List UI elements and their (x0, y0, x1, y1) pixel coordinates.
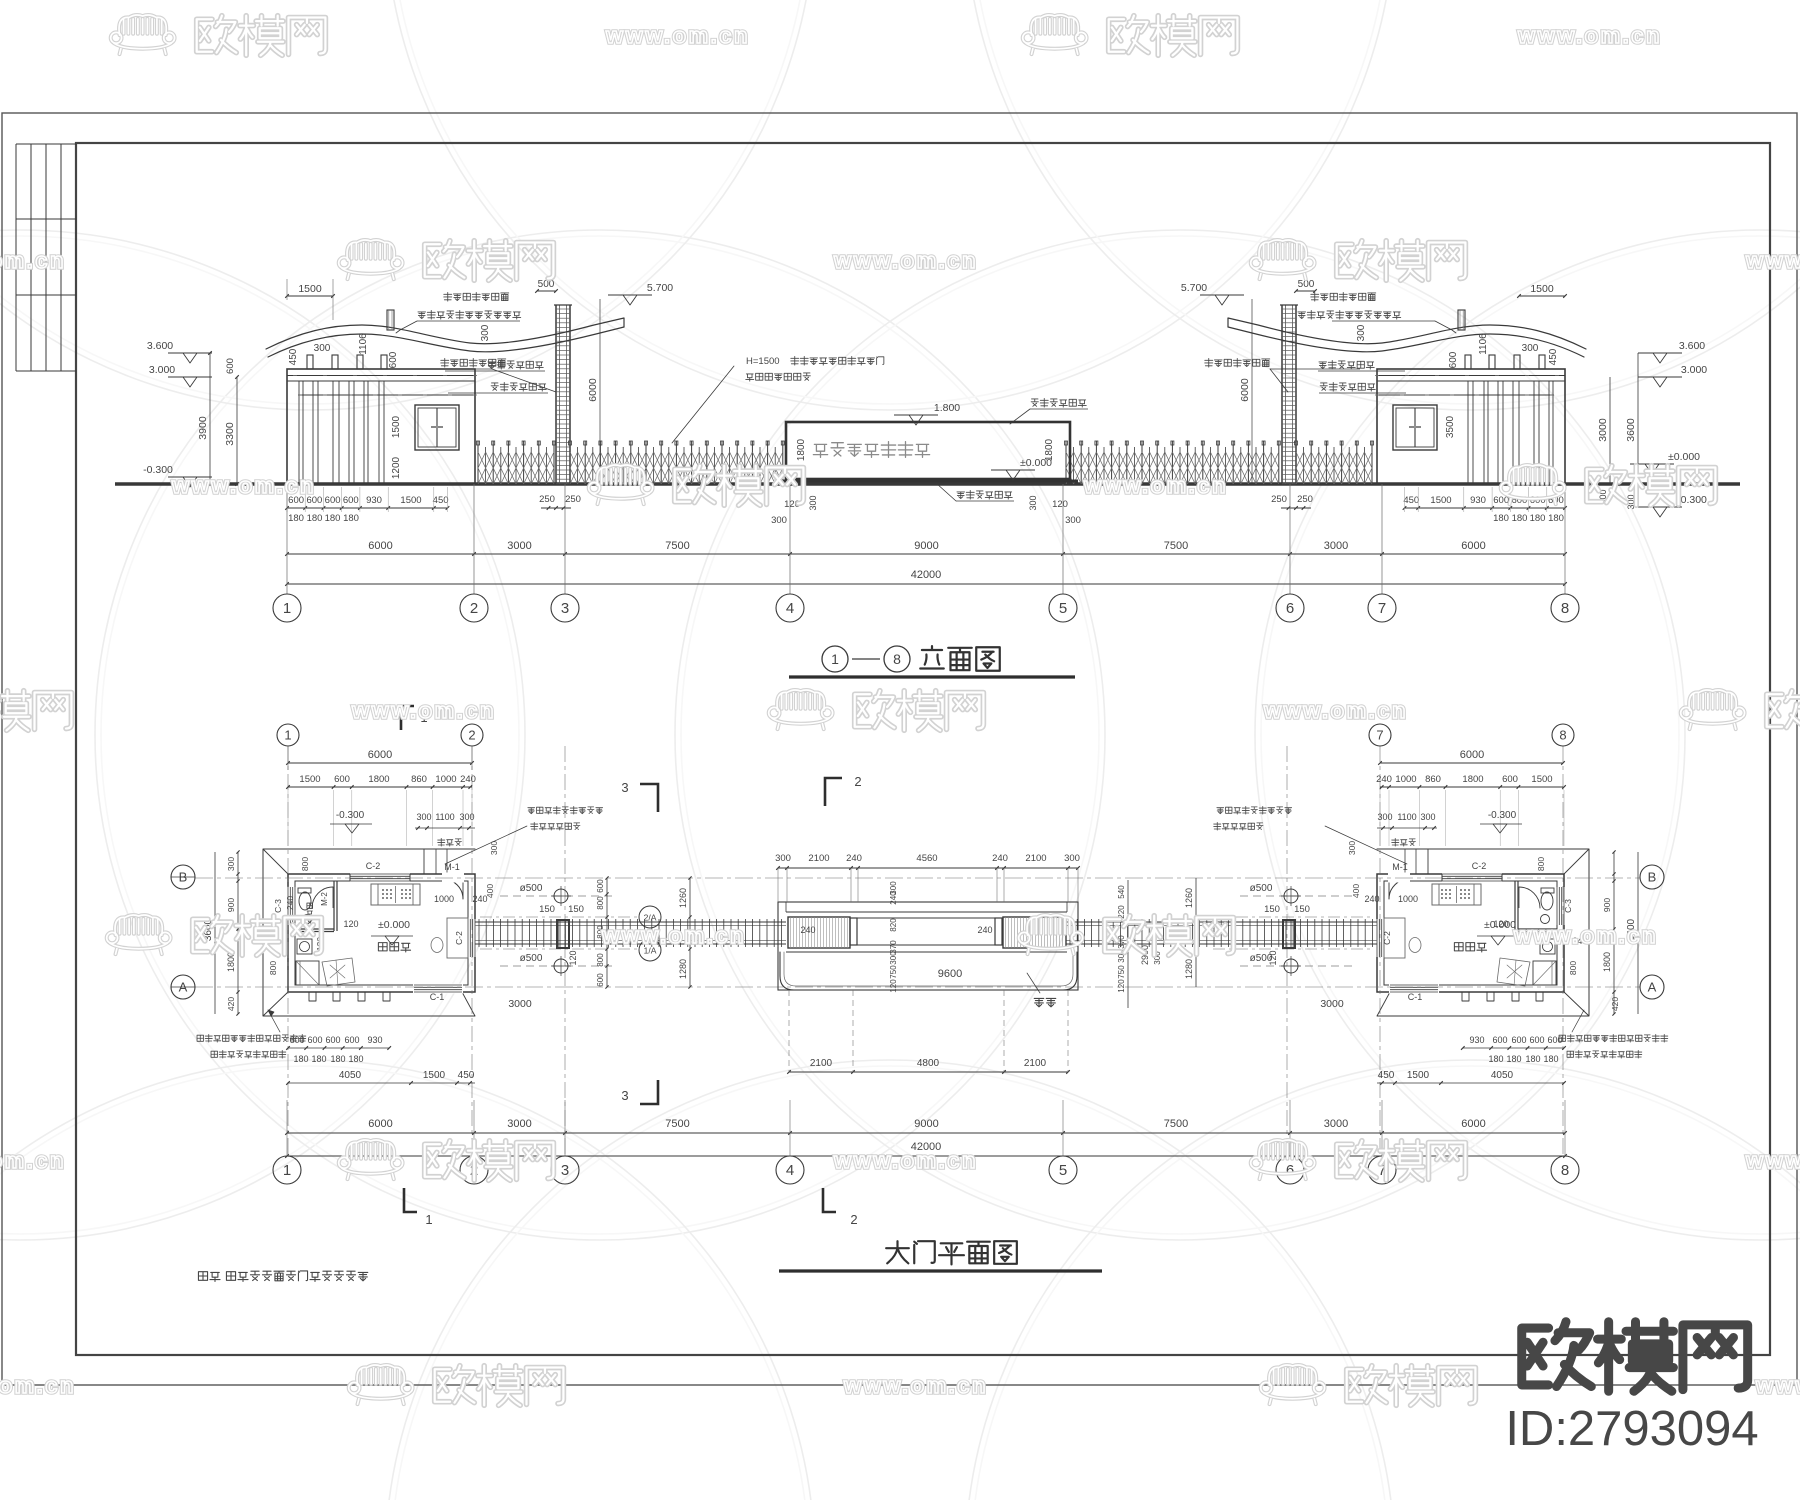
svg-text:8: 8 (1561, 1162, 1569, 1179)
elevation title (822, 646, 848, 672)
svg-text:120: 120 (568, 950, 578, 965)
elevation dim chain small (287, 507, 448, 509)
plan dim witness lines (287, 790, 289, 846)
svg-text:600: 600 (334, 774, 350, 785)
svg-text:600: 600 (596, 973, 605, 987)
svg-text:1500: 1500 (299, 774, 320, 785)
central vertical dims (899, 880, 901, 1010)
svg-text:4050: 4050 (339, 1070, 362, 1081)
svg-text:600: 600 (307, 1035, 322, 1045)
svg-text:C-1: C-1 (1408, 992, 1423, 1002)
gatehouse plan left (263, 849, 477, 1016)
lane vertical dims (606, 878, 608, 987)
plan axis bubbles bottom (286, 1100, 288, 1156)
svg-text:300: 300 (226, 857, 236, 871)
1.800 level marker (894, 414, 938, 416)
svg-text:120: 120 (889, 979, 898, 993)
svg-text:3000: 3000 (1597, 418, 1609, 442)
gate anchor circles (554, 889, 568, 903)
elevation top dims (287, 295, 333, 297)
svg-text:www.om.cn: www.om.cn (843, 1373, 988, 1398)
svg-text:www.om.cn: www.om.cn (1263, 698, 1408, 723)
svg-text:600: 600 (1529, 1035, 1544, 1045)
elevation level markers right (1638, 352, 1682, 354)
svg-text:400: 400 (485, 884, 495, 898)
svg-text:-0.300: -0.300 (336, 810, 365, 821)
svg-text:www.om.cn: www.om.cn (1755, 1373, 1800, 1398)
central top dims (778, 867, 1078, 869)
svg-text:2100: 2100 (1025, 853, 1046, 864)
svg-text:600: 600 (1502, 774, 1518, 785)
svg-text:240: 240 (846, 853, 862, 864)
plan axis bubbles top (277, 724, 299, 746)
svg-text:180: 180 (348, 1054, 363, 1064)
svg-text:240: 240 (977, 925, 992, 935)
svg-text:6000: 6000 (368, 1118, 392, 1130)
svg-text:B: B (1648, 870, 1657, 885)
svg-text:3000: 3000 (1324, 1118, 1348, 1130)
svg-text:7: 7 (1376, 728, 1383, 743)
room labels (378, 943, 387, 951)
svg-text:1280: 1280 (678, 959, 688, 979)
svg-text:150: 150 (1264, 904, 1280, 915)
svg-text:300: 300 (459, 812, 474, 822)
watermark layer (111, 15, 175, 54)
plan bottom small chains (288, 1047, 389, 1049)
svg-text:3: 3 (621, 1088, 628, 1103)
svg-text:300: 300 (489, 841, 499, 855)
svg-text:3: 3 (561, 600, 569, 617)
elevation axis bubbles (286, 484, 288, 594)
svg-text:3: 3 (621, 780, 628, 795)
svg-text:www.om.cn: www.om.cn (0, 248, 66, 273)
svg-text:300: 300 (1356, 324, 1367, 341)
central gate structure plan (778, 902, 1078, 990)
svg-text:180: 180 (1512, 513, 1528, 524)
svg-text:800: 800 (268, 961, 278, 975)
section markers (401, 706, 842, 1212)
svg-text:300: 300 (1522, 343, 1539, 354)
svg-text:240: 240 (1376, 774, 1392, 785)
elevation left height dims (209, 353, 211, 484)
svg-text:150: 150 (539, 904, 555, 915)
svg-text:7500: 7500 (665, 540, 689, 552)
gatehouse elevation left (266, 305, 624, 484)
svg-text:180: 180 (1506, 1054, 1521, 1064)
svg-text:250: 250 (1271, 494, 1287, 505)
svg-text:1: 1 (831, 651, 839, 667)
svg-text:250: 250 (565, 494, 581, 505)
plan left vertical dims (237, 852, 239, 1014)
svg-text:www.om.cn: www.om.cn (0, 1373, 76, 1398)
svg-text:6000: 6000 (1461, 540, 1485, 552)
plan right vertical dims (1613, 852, 1615, 1014)
svg-text:1000: 1000 (434, 894, 454, 904)
svg-text:600: 600 (325, 1035, 340, 1045)
svg-text:1200: 1200 (391, 456, 402, 479)
svg-text:930: 930 (367, 1035, 382, 1045)
svg-text:3900: 3900 (197, 416, 209, 440)
elevation chain witness lines (286, 487, 288, 512)
svg-text:540: 540 (1117, 885, 1126, 899)
svg-text:2100: 2100 (1024, 1058, 1047, 1069)
svg-text:4050: 4050 (1491, 1070, 1514, 1081)
svg-text:5.700: 5.700 (647, 282, 673, 294)
svg-text:C-3: C-3 (273, 899, 283, 913)
svg-text:860: 860 (1425, 774, 1441, 785)
svg-text:6000: 6000 (1461, 1118, 1485, 1130)
svg-text:300: 300 (1420, 812, 1435, 822)
svg-text:450: 450 (1403, 495, 1419, 506)
svg-text:www.om.cn: www.om.cn (1745, 248, 1800, 273)
central bottom dims (789, 1071, 1068, 1073)
svg-text:3.600: 3.600 (1679, 340, 1705, 352)
svg-text:1: 1 (284, 728, 291, 743)
svg-text:±0.000: ±0.000 (1668, 451, 1700, 463)
elevation annotations (444, 292, 452, 301)
svg-text:120: 120 (1268, 950, 1278, 965)
svg-text:8: 8 (893, 651, 901, 667)
svg-text:800: 800 (1536, 857, 1546, 871)
svg-text:±0.000: ±0.000 (378, 919, 410, 931)
svg-text:3000: 3000 (507, 1118, 531, 1130)
svg-text:1500: 1500 (298, 283, 322, 295)
svg-text:1: 1 (283, 600, 291, 617)
svg-text:180: 180 (1543, 1054, 1558, 1064)
svg-text:42000: 42000 (911, 569, 942, 581)
svg-text:4560: 4560 (916, 853, 937, 864)
svg-text:250: 250 (1297, 494, 1313, 505)
svg-text:1280: 1280 (1184, 959, 1194, 979)
svg-text:930: 930 (1470, 495, 1486, 506)
svg-text:1500: 1500 (1530, 283, 1554, 295)
inner drawing frame (76, 143, 1770, 1355)
svg-text:1800: 1800 (1602, 952, 1612, 972)
svg-text:180: 180 (311, 1054, 326, 1064)
svg-text:120: 120 (1117, 979, 1126, 993)
site logo (1522, 1322, 1592, 1387)
svg-text:1106: 1106 (358, 333, 369, 355)
svg-text:2100: 2100 (810, 1058, 833, 1069)
plan annotations (197, 1035, 203, 1041)
svg-text:1500: 1500 (1531, 774, 1552, 785)
svg-text:3600: 3600 (1625, 418, 1637, 442)
svg-text:www.om.cn: www.om.cn (1745, 1148, 1800, 1173)
svg-text:M-1: M-1 (444, 862, 460, 872)
elevation right height dims (1609, 377, 1611, 484)
plan axis dashed verticals (287, 746, 289, 1155)
svg-text:9000: 9000 (914, 1118, 938, 1130)
svg-text:3.600: 3.600 (147, 340, 173, 352)
svg-text:4: 4 (786, 1162, 794, 1179)
svg-text:150: 150 (1294, 904, 1310, 915)
svg-text:A: A (1648, 980, 1657, 995)
svg-text:600: 600 (325, 495, 341, 506)
svg-text:9600: 9600 (938, 968, 962, 980)
svg-text:600: 600 (388, 351, 399, 368)
svg-text:ø500: ø500 (1250, 883, 1273, 894)
svg-text:www.om.cn: www.om.cn (833, 1148, 978, 1173)
svg-text:180: 180 (293, 1054, 308, 1064)
svg-text:150: 150 (568, 904, 584, 915)
svg-text:www.om.cn: www.om.cn (351, 698, 496, 723)
svg-text:930: 930 (366, 495, 382, 506)
svg-text:M-2: M-2 (320, 892, 329, 906)
svg-text:300: 300 (1377, 812, 1392, 822)
svg-text:www.om.cn: www.om.cn (1513, 923, 1658, 948)
svg-text:450: 450 (1378, 1070, 1395, 1081)
svg-text:9000: 9000 (914, 540, 938, 552)
svg-text:600: 600 (343, 495, 359, 506)
svg-text:www.om.cn: www.om.cn (601, 923, 746, 948)
note text (198, 1272, 207, 1281)
svg-text:1800: 1800 (1462, 774, 1483, 785)
svg-text:1: 1 (425, 1212, 432, 1227)
svg-text:www.om.cn: www.om.cn (171, 473, 316, 498)
svg-text:3: 3 (561, 1162, 569, 1179)
plan horizontal axes dashed (195, 877, 1640, 879)
svg-text:1100: 1100 (1397, 812, 1416, 822)
svg-text:1.800: 1.800 (934, 402, 960, 414)
svg-text:900: 900 (1602, 898, 1612, 912)
svg-text:8: 8 (1561, 600, 1569, 617)
retractable fence elevation (477, 441, 556, 484)
elevation level markers left (168, 352, 212, 354)
svg-text:1800: 1800 (1044, 438, 1055, 461)
plan axis letter bubbles (171, 865, 195, 889)
svg-text:6000: 6000 (1460, 749, 1484, 761)
elevation main dim chains (287, 553, 1565, 555)
svg-text:C-2: C-2 (1472, 861, 1487, 871)
svg-text:300: 300 (775, 853, 791, 864)
svg-text:3.000: 3.000 (149, 364, 175, 376)
svg-text:2/A: 2/A (644, 913, 657, 923)
plan top dims left (288, 762, 472, 764)
svg-text:240: 240 (460, 774, 476, 785)
svg-text:5.700: 5.700 (1181, 282, 1207, 294)
svg-text:C-2: C-2 (366, 861, 381, 871)
svg-text:2: 2 (470, 600, 478, 617)
svg-text:1260: 1260 (678, 888, 688, 908)
svg-text:120: 120 (1052, 499, 1068, 510)
svg-text:1500: 1500 (423, 1070, 446, 1081)
svg-text:www.om.cn: www.om.cn (1517, 23, 1662, 48)
svg-text:1800: 1800 (368, 774, 389, 785)
plan title (886, 1241, 909, 1263)
gatehouse plan right (1376, 849, 1590, 1016)
svg-text:6000: 6000 (1239, 378, 1251, 402)
svg-text:-0.300: -0.300 (143, 464, 173, 476)
svg-text:C-3: C-3 (1563, 899, 1573, 913)
svg-text:180: 180 (307, 513, 323, 524)
svg-text:450: 450 (458, 1070, 475, 1081)
svg-text:600: 600 (1448, 351, 1459, 368)
svg-text:3500: 3500 (1445, 415, 1456, 438)
svg-text:420: 420 (1610, 997, 1620, 1011)
svg-text:1000: 1000 (1398, 894, 1418, 904)
svg-text:600: 600 (225, 358, 236, 374)
svg-text:3000: 3000 (1324, 540, 1348, 552)
school gate sign (786, 422, 1070, 479)
svg-text:180: 180 (325, 513, 341, 524)
svg-text:180: 180 (1548, 513, 1564, 524)
svg-text:1100: 1100 (435, 812, 454, 822)
svg-text:6000: 6000 (368, 540, 392, 552)
svg-text:800: 800 (300, 857, 310, 871)
svg-text:H=1500: H=1500 (746, 356, 780, 367)
svg-text:1500: 1500 (1430, 495, 1451, 506)
svg-text:2: 2 (850, 1212, 857, 1227)
svg-text:±0.000: ±0.000 (1484, 919, 1516, 931)
svg-text:ID:2793094: ID:2793094 (1505, 1402, 1758, 1456)
svg-text:3.000: 3.000 (1681, 364, 1707, 376)
svg-text:2100: 2100 (808, 853, 829, 864)
svg-text:M-1: M-1 (1392, 862, 1408, 872)
svg-text:300: 300 (1064, 853, 1080, 864)
svg-text:300: 300 (1028, 495, 1038, 510)
svg-text:180: 180 (343, 513, 359, 524)
svg-text:800: 800 (1568, 961, 1578, 975)
svg-text:3300: 3300 (224, 422, 236, 446)
svg-text:600: 600 (344, 1035, 359, 1045)
svg-text:1500: 1500 (400, 495, 421, 506)
svg-text:6000: 6000 (368, 749, 392, 761)
svg-text:750: 750 (1117, 965, 1126, 979)
svg-text:860: 860 (411, 774, 427, 785)
svg-text:-0.300: -0.300 (1677, 494, 1707, 506)
svg-text:750: 750 (889, 965, 898, 979)
svg-text:300: 300 (314, 343, 331, 354)
svg-text:3000: 3000 (508, 998, 532, 1010)
svg-text:400: 400 (1351, 884, 1361, 898)
svg-text:180: 180 (1493, 513, 1509, 524)
svg-text:180: 180 (1525, 1054, 1540, 1064)
sign text (813, 444, 827, 457)
svg-text:1800: 1800 (796, 438, 807, 461)
svg-text:6000: 6000 (587, 378, 599, 402)
title table top-left (15, 144, 17, 371)
svg-text:C-2: C-2 (454, 931, 464, 945)
svg-text:800: 800 (596, 896, 605, 910)
plan top dims right (1380, 762, 1563, 764)
svg-text:300: 300 (480, 324, 491, 341)
svg-text:800: 800 (596, 953, 605, 967)
svg-text:300: 300 (808, 495, 818, 510)
svg-text:420: 420 (226, 997, 236, 1011)
±0.000 marker at gate (991, 469, 1035, 471)
svg-text:300: 300 (1065, 515, 1081, 526)
svg-text:2: 2 (854, 774, 861, 789)
svg-text:6: 6 (1286, 1162, 1294, 1179)
svg-text:600: 600 (596, 879, 605, 893)
svg-text:120: 120 (343, 919, 358, 929)
svg-text:1500: 1500 (1407, 1070, 1430, 1081)
svg-text:4: 4 (786, 600, 794, 617)
svg-text:180: 180 (1488, 1054, 1503, 1064)
flower bed (780, 952, 1077, 990)
gate track rails (475, 921, 786, 923)
5.700 level markers (608, 294, 652, 296)
svg-text:300: 300 (771, 515, 787, 526)
svg-text:1500: 1500 (391, 415, 402, 438)
svg-text:300: 300 (416, 812, 431, 822)
plan main dim chains (287, 1132, 1565, 1134)
svg-text:-0.300: -0.300 (1488, 810, 1517, 821)
svg-text:1106: 1106 (1478, 333, 1489, 355)
svg-text:7: 7 (1378, 600, 1386, 617)
svg-text:ø500: ø500 (520, 883, 543, 894)
pillar height dims 6000 (599, 299, 601, 484)
svg-text:1260: 1260 (1184, 888, 1194, 908)
svg-text:2: 2 (468, 728, 475, 743)
svg-text:600: 600 (1511, 1035, 1526, 1045)
svg-text:240: 240 (992, 853, 1008, 864)
svg-text:820: 820 (889, 918, 898, 932)
svg-text:7500: 7500 (1164, 540, 1188, 552)
svg-text:3000: 3000 (1320, 998, 1344, 1010)
svg-text:1000: 1000 (435, 774, 456, 785)
svg-text:4800: 4800 (917, 1058, 940, 1069)
svg-text:3000: 3000 (507, 540, 531, 552)
svg-text:180: 180 (330, 1054, 345, 1064)
svg-text:C-2: C-2 (1382, 931, 1392, 945)
svg-text:7500: 7500 (665, 1118, 689, 1130)
svg-text:240: 240 (889, 891, 898, 905)
svg-text:1000: 1000 (1395, 774, 1416, 785)
svg-text:600: 600 (1547, 1035, 1562, 1045)
svg-text:450: 450 (1548, 348, 1559, 365)
svg-text:180: 180 (288, 513, 304, 524)
svg-text:5: 5 (1059, 1162, 1067, 1179)
svg-text:7500: 7500 (1164, 1118, 1188, 1130)
svg-text:450: 450 (433, 495, 449, 506)
svg-text:240: 240 (800, 925, 815, 935)
elevation ground line (115, 482, 1740, 486)
svg-text:www.om.cn: www.om.cn (605, 23, 750, 48)
svg-text:300: 300 (1347, 841, 1357, 855)
svg-text:240: 240 (1364, 894, 1379, 904)
svg-text:ø500: ø500 (520, 953, 543, 964)
svg-text:6: 6 (1286, 600, 1294, 617)
svg-text:300: 300 (889, 951, 898, 965)
svg-text:450: 450 (288, 348, 299, 365)
svg-text:600: 600 (1492, 1035, 1507, 1045)
svg-text:8: 8 (1559, 728, 1566, 743)
svg-text:www.om.cn: www.om.cn (0, 1148, 66, 1173)
svg-text:180: 180 (1530, 513, 1546, 524)
svg-text:5: 5 (1059, 600, 1067, 617)
svg-text:www.om.cn: www.om.cn (1083, 473, 1228, 498)
svg-text:1: 1 (283, 1162, 291, 1179)
svg-text:C-1: C-1 (430, 992, 445, 1002)
svg-text:900: 900 (226, 898, 236, 912)
svg-text:www.om.cn: www.om.cn (833, 248, 978, 273)
gate posts plan (557, 920, 569, 948)
gatehouse elevation right (1228, 305, 1586, 484)
svg-text:240: 240 (285, 896, 295, 910)
svg-text:250: 250 (539, 494, 555, 505)
svg-text:930: 930 (1469, 1035, 1484, 1045)
